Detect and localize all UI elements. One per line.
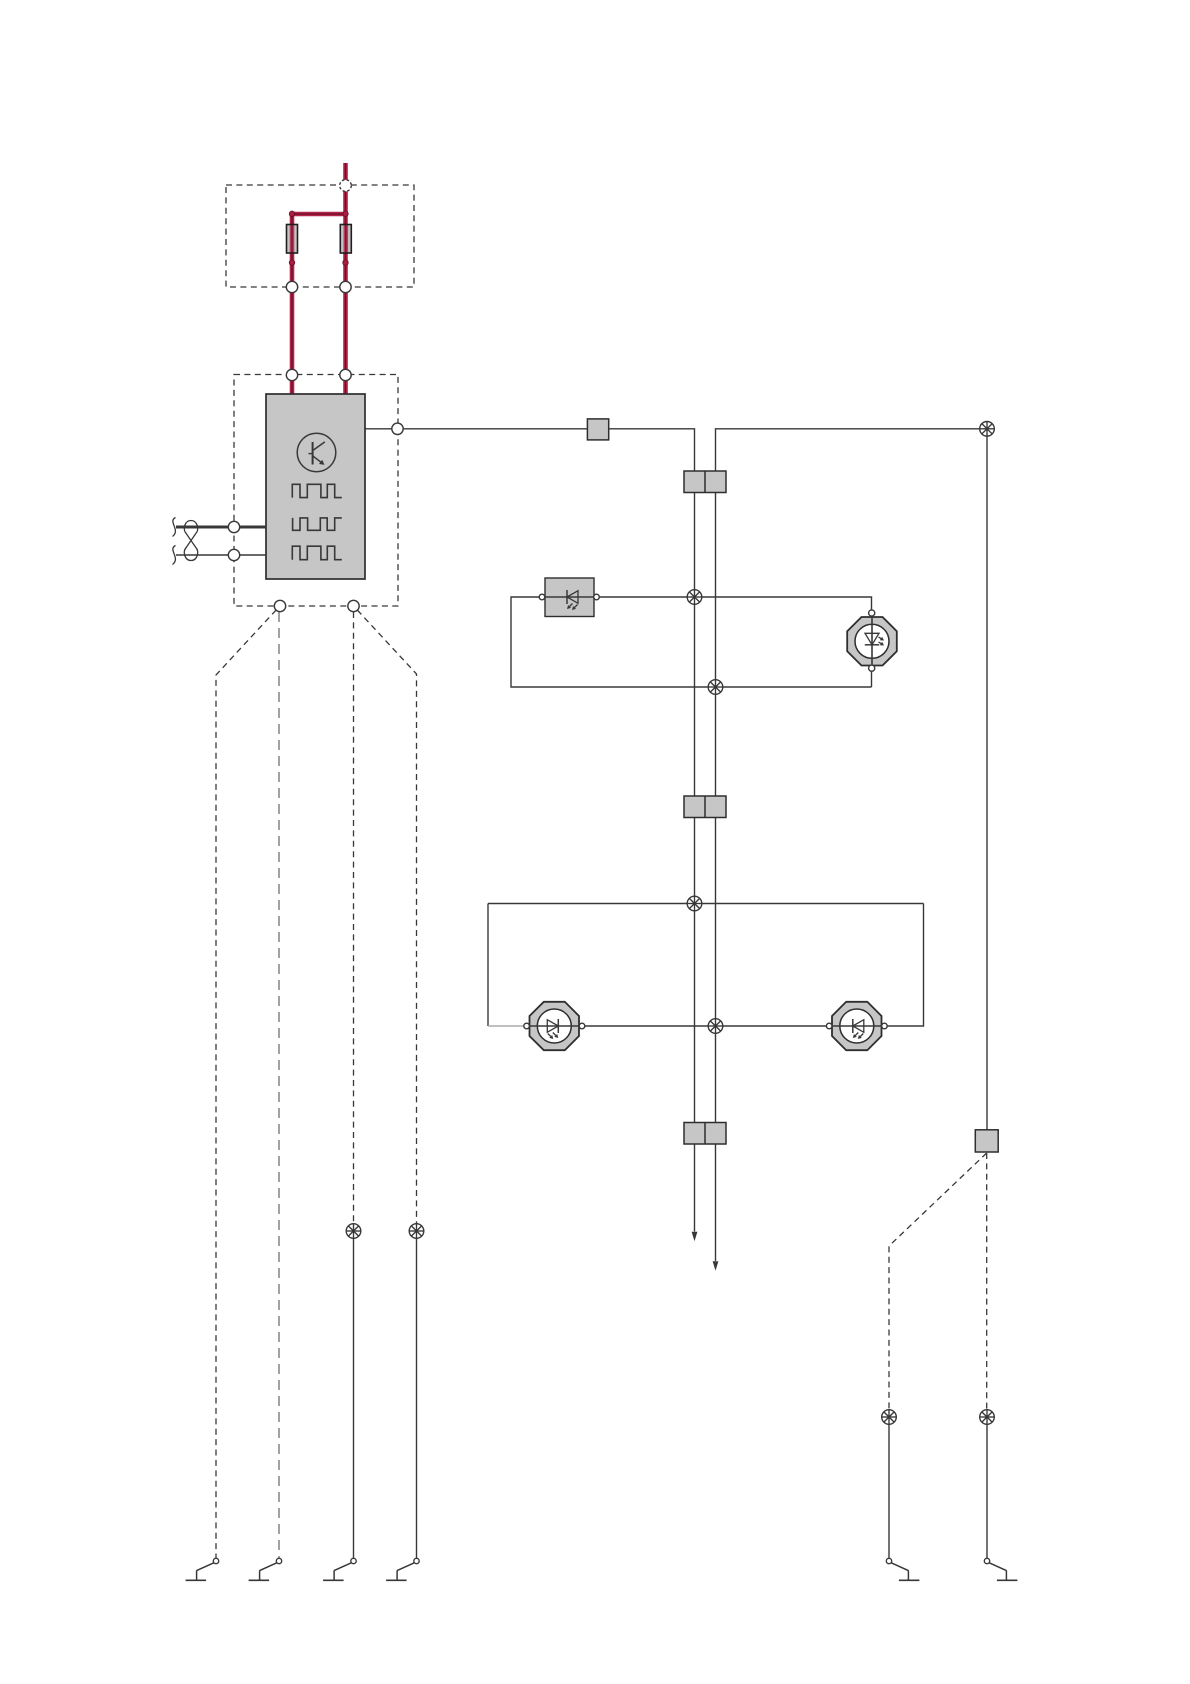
LED indicator L1 block xyxy=(545,578,594,617)
wire solid from splice to ground switch 3 xyxy=(353,1238,355,1558)
terminal node module left upper xyxy=(228,521,239,532)
break mark lower wire xyxy=(173,546,176,565)
connector C5 (square, right branch) xyxy=(975,1130,998,1152)
wire solid from splice to ground switch 5 xyxy=(888,1424,890,1558)
wire loop2 gray segment xyxy=(488,1025,524,1027)
junction dot D (red) xyxy=(343,260,348,265)
splice junction S7 xyxy=(409,1224,424,1239)
control module dashed enclosure xyxy=(234,375,398,607)
square-wave symbol row 1 xyxy=(292,484,342,497)
terminal pin lamp E bottom xyxy=(869,665,875,671)
ground switch 1 xyxy=(186,1558,219,1580)
square-wave symbol row 2 xyxy=(293,518,342,530)
lamp E (octagon LED, vertical) xyxy=(847,617,897,666)
wire loop2 left leg xyxy=(487,904,489,1027)
wire harness dashed run from module pin (gray vertical) xyxy=(278,612,280,1558)
wire A: terminal to junction column (turn-signal feed left) xyxy=(403,429,694,1232)
ground switch 3 xyxy=(323,1558,356,1580)
wire dashed run from connector to splice (vertical, right side) xyxy=(986,1153,988,1410)
wire from splice down to connector (far right) xyxy=(986,436,988,1130)
square-wave symbol row 3 xyxy=(292,546,342,560)
terminal pin lamp E top xyxy=(869,610,875,616)
terminal node module bottom left xyxy=(274,600,285,611)
connector C3 (dual, middle) xyxy=(684,796,726,818)
terminal node module bottom right xyxy=(348,600,359,611)
fuse F1 xyxy=(287,225,298,254)
ground switch 5 xyxy=(886,1558,919,1580)
junction dot A (red) xyxy=(289,211,294,216)
wire dashed run from connector to splice (diagonal, right side) xyxy=(889,1153,987,1410)
break mark upper wire xyxy=(173,518,176,537)
terminal pin L1 right xyxy=(594,594,600,600)
wire red branch to fuse 1 (horizontal) xyxy=(290,212,346,217)
connector C2 (dual, upper) xyxy=(684,471,726,493)
connector C4 (dual, lower) xyxy=(684,1123,726,1145)
splice junction S3 xyxy=(708,680,723,695)
fuse F2 xyxy=(340,225,351,254)
fuse box dashed enclosure xyxy=(226,185,414,287)
wire loop1 upper run to lamp E top xyxy=(599,597,871,610)
splice junction S4 xyxy=(687,896,702,911)
terminal pin lamp F left xyxy=(524,1023,530,1029)
ground switch 6 xyxy=(984,1558,1017,1580)
transistor symbol in module xyxy=(297,433,336,472)
wire solid from splice to ground switch 6 xyxy=(986,1424,988,1558)
splice junction S6 xyxy=(346,1224,361,1239)
terminal pin L1 left xyxy=(539,594,545,600)
connector C1 (inline square) xyxy=(587,419,608,440)
wire twisted-pair input lower xyxy=(176,554,266,556)
ground switch 2 xyxy=(249,1558,282,1580)
terminal pin lamp G right xyxy=(882,1023,888,1029)
junction dot B (red) xyxy=(343,211,348,216)
terminal node fusebox bottom right xyxy=(340,281,351,292)
splice junction S9 xyxy=(980,1410,995,1425)
wire battery feed (red, main vertical) xyxy=(343,163,348,394)
wire solid from splice to ground switch 4 xyxy=(416,1238,418,1558)
control module U1 body xyxy=(266,394,365,579)
junction dot C (red) xyxy=(289,260,294,265)
lamp F (octagon LED, loop2 left) xyxy=(530,1002,580,1050)
arrowhead wire B xyxy=(713,1261,719,1271)
lamp G (octagon LED, loop2 right) xyxy=(832,1002,882,1050)
terminal node module top right xyxy=(340,369,351,380)
splice junction S8 xyxy=(882,1410,897,1425)
wire module output to terminal xyxy=(365,428,392,430)
wire loop2 top run xyxy=(488,903,924,905)
wire twisted-pair input upper (thick) xyxy=(176,526,266,529)
splice junction S2 xyxy=(687,590,702,605)
arrowhead wire A xyxy=(692,1232,698,1242)
wire red through fuse 1 (left vertical) xyxy=(290,214,295,394)
wire lamp E bottom stub xyxy=(871,671,873,687)
wire loop2 lamp row and right leg xyxy=(524,904,923,1027)
terminal node module right xyxy=(392,423,403,434)
wire loop1 lower run / left leg xyxy=(511,597,872,687)
splice junction S5 xyxy=(708,1019,723,1034)
terminal pin lamp G left xyxy=(826,1023,832,1029)
wire harness dashed run from module pin (left diagonal) xyxy=(216,610,276,1559)
wire harness dashed run from module pin (right diagonal to splice) xyxy=(357,610,416,1224)
twisted pair symbol xyxy=(184,521,197,561)
terminal node module left lower xyxy=(228,549,239,560)
ground switch 4 xyxy=(386,1558,419,1580)
splice junction S1 xyxy=(980,422,995,437)
terminal node module top left xyxy=(286,369,297,380)
wire harness dashed run from module pin (vertical to splice) xyxy=(353,612,355,1224)
terminal node fusebox bottom left xyxy=(286,281,297,292)
terminal node fusebox top (dashed circle) xyxy=(340,180,352,192)
terminal pin lamp F right xyxy=(579,1023,585,1029)
wire B: feed right with corner xyxy=(716,429,981,1261)
